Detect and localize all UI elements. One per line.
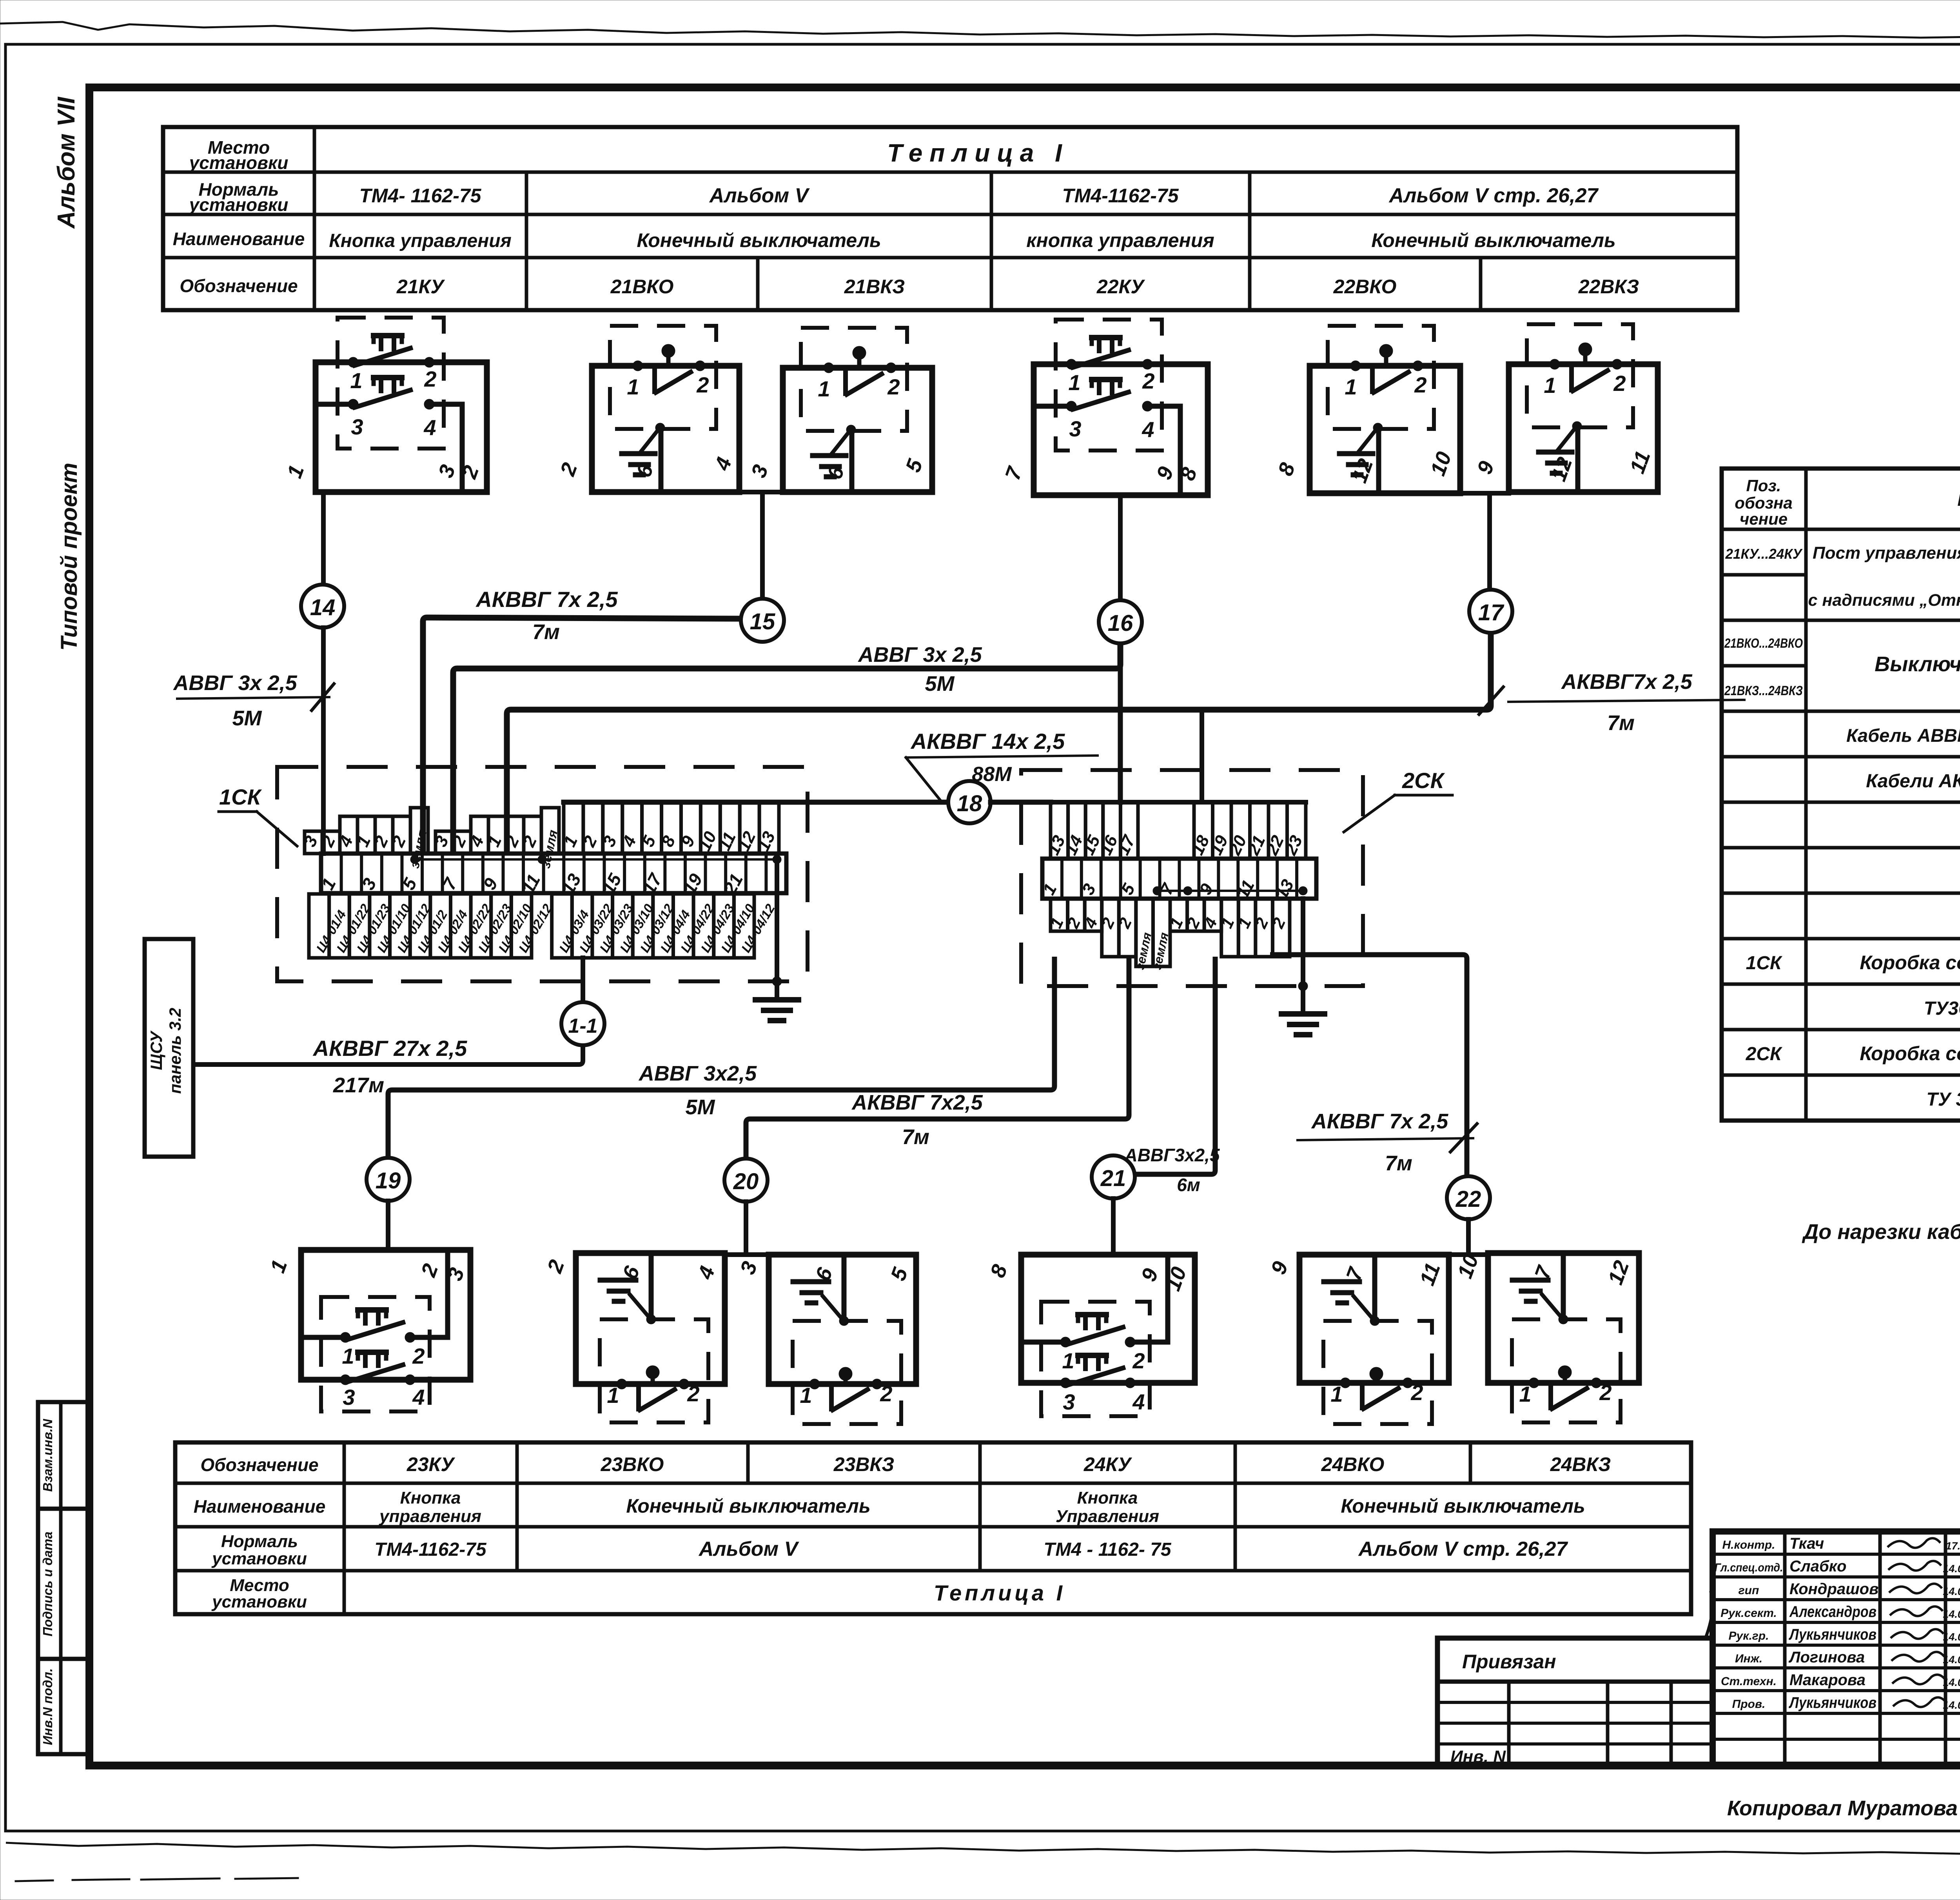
svg-text:2: 2 — [887, 374, 900, 399]
svg-text:1: 1 — [627, 374, 639, 399]
svg-text:Управления: Управления — [1056, 1507, 1159, 1526]
svg-text:Ткач: Ткач — [1789, 1535, 1824, 1552]
junction box 1SK dashed outline — [277, 767, 808, 981]
push-button station 24KU — [986, 1255, 1195, 1416]
svg-text:Поз.: Поз. — [1746, 476, 1781, 495]
node 18 — [948, 781, 991, 823]
limit switch 24VKO — [1267, 1255, 1449, 1424]
parts list table — [1722, 469, 1960, 1121]
cable label AVVG 3x2,5 5M (left) — [177, 697, 329, 699]
top specification table — [163, 127, 1737, 310]
limit switch 22VKO — [1274, 326, 1460, 493]
push-button station 21KU — [283, 318, 487, 492]
wire node 14 down to 1SK — [321, 628, 326, 854]
svg-text:24ВКО: 24ВКО — [1321, 1453, 1385, 1475]
svg-text:1-1: 1-1 — [568, 1015, 597, 1037]
svg-text:Наименование: Наименование — [1957, 486, 1960, 510]
svg-text:Наименование: Наименование — [173, 229, 305, 249]
svg-text:обозна: обозна — [1735, 494, 1792, 512]
svg-text:панель 3.2: панель 3.2 — [166, 1008, 184, 1093]
svg-text:Пост управления кнопочный ПКЕ-: Пост управления кнопочный ПКЕ-222-2,толк… — [1813, 543, 1960, 563]
wire 22VKO/22VKZ to node 17 — [1460, 491, 1509, 496]
wire 1SK to node 18 — [564, 800, 779, 805]
svg-text:Конечный выключатель: Конечный выключатель — [1341, 1495, 1585, 1517]
svg-text:14.01.86г: 14.01.86г — [1943, 1563, 1960, 1575]
junction box 2SK dashed outline — [1021, 770, 1363, 986]
1SK ground — [775, 859, 779, 998]
svg-text:Альбом V: Альбом V — [698, 1538, 800, 1560]
svg-text:Коробка соединительная КСК-1: Коробка соединительная КСК-16 — [1860, 1043, 1960, 1064]
svg-text:21ВКО...24ВКО: 21ВКО...24ВКО — [1724, 636, 1803, 651]
svg-text:Копировал Муратова: Копировал Муратова — [1727, 1796, 1958, 1820]
1SK upper terminal cells group B — [431, 808, 560, 870]
node 16 — [1099, 600, 1142, 643]
svg-text:3: 3 — [1069, 416, 1081, 441]
limit switch 23VKO — [543, 1253, 725, 1422]
cable AVVG 3x2,5 node 16 to 1SK — [453, 643, 1120, 854]
svg-text:1: 1 — [350, 368, 362, 393]
svg-text:Привязан: Привязан — [1462, 1651, 1556, 1673]
svg-text:АКВВГ 7х 2,5: АКВВГ 7х 2,5 — [1311, 1110, 1448, 1133]
svg-text:Пров.: Пров. — [1732, 1698, 1766, 1711]
wire node 20 to 23VKO/23VKZ — [744, 1202, 748, 1255]
node 20 — [724, 1159, 768, 1202]
svg-text:установки: установки — [189, 153, 289, 173]
torn paper edge top — [0, 22, 1960, 39]
2SK earth bus — [1157, 890, 1303, 892]
torn paper edge bottom — [6, 1843, 1960, 1856]
cable label AKVVG 7x2,5 7m (to 22) — [1298, 1138, 1473, 1140]
svg-text:Инж.: Инж. — [1735, 1652, 1762, 1665]
svg-text:22ВКЗ: 22ВКЗ — [1578, 276, 1639, 298]
node 1-1 — [581, 958, 585, 1002]
svg-text:2: 2 — [1613, 371, 1626, 396]
svg-text:3: 3 — [1063, 1390, 1075, 1414]
svg-text:ЩСУ: ЩСУ — [147, 1030, 165, 1070]
svg-text:Альбом V стр. 26,27: Альбом V стр. 26,27 — [1388, 184, 1599, 207]
paper scraps bottom-left — [16, 1880, 53, 1881]
svg-text:управления: управления — [379, 1507, 481, 1526]
svg-text:1: 1 — [800, 1383, 812, 1408]
bottom specification table — [175, 1442, 1691, 1614]
svg-text:Наименование: Наименование — [194, 1496, 326, 1517]
svg-text:7м: 7м — [902, 1125, 929, 1149]
svg-text:22ВКО: 22ВКО — [1333, 276, 1397, 298]
svg-text:Лукьянчиков: Лукьянчиков — [1788, 1626, 1877, 1643]
svg-text:2: 2 — [1132, 1348, 1145, 1373]
svg-text:Коробка соединительная КСК-32: Коробка соединительная КСК-32 — [1860, 952, 1960, 974]
svg-text:21ВКО: 21ВКО — [610, 276, 674, 298]
svg-text:До нарезки кабелей длины тр: До нарезки кабелей длины трасс уточнить … — [1802, 1220, 1960, 1244]
svg-text:гип: гип — [1739, 1584, 1759, 1597]
wire 2SK to node 21 — [1136, 957, 1215, 1174]
svg-text:217м: 217м — [333, 1074, 384, 1097]
svg-text:24КУ: 24КУ — [1083, 1453, 1132, 1475]
wire node 19 to 23KU — [386, 1201, 390, 1250]
svg-text:кнопка управления: кнопка управления — [1026, 229, 1214, 251]
limit switch 22VKZ — [1473, 324, 1658, 492]
svg-text:1: 1 — [1544, 373, 1556, 398]
svg-text:Альбом V: Альбом V — [709, 184, 810, 207]
svg-text:Конечный выключатель: Конечный выключатель — [1371, 229, 1615, 251]
svg-text:7м: 7м — [1607, 711, 1635, 735]
svg-text:Альбом VII: Альбом VII — [53, 96, 80, 229]
svg-text:Ст.техн.: Ст.техн. — [1721, 1675, 1777, 1688]
svg-text:Рук.сект.: Рук.сект. — [1720, 1607, 1777, 1620]
svg-text:23ВКО: 23ВКО — [601, 1453, 664, 1475]
svg-text:19: 19 — [376, 1168, 401, 1193]
svg-text:2: 2 — [696, 372, 709, 397]
1SK upper terminal cells group C — [560, 802, 779, 854]
svg-text:2: 2 — [1599, 1380, 1612, 1405]
svg-text:Кабели АКВВГ ГОСТ 1508-78: Кабели АКВВГ ГОСТ 1508-78 — [1866, 771, 1960, 792]
ShchSU panel 3.2 box — [145, 939, 193, 1157]
1SK earth bus — [415, 858, 777, 861]
svg-text:Альбом V стр. 26,27: Альбом V стр. 26,27 — [1358, 1538, 1568, 1560]
svg-text:20: 20 — [733, 1169, 759, 1194]
svg-text:1: 1 — [607, 1383, 619, 1408]
svg-text:6м: 6м — [1177, 1175, 1200, 1195]
cable AKVVG 7x2,5 from node 15 to 1SK — [423, 618, 741, 854]
svg-text:5М: 5М — [925, 672, 955, 696]
svg-text:17.01.86: 17.01.86 — [1945, 1540, 1960, 1552]
svg-text:чение: чение — [1740, 510, 1788, 528]
svg-text:ТУ36.1753-75: ТУ36.1753-75 — [1924, 998, 1960, 1019]
push-button station 22KU — [1001, 320, 1208, 495]
wire 21KU to node 14 — [321, 492, 326, 585]
svg-text:1: 1 — [342, 1344, 354, 1368]
svg-text:АКВВГ 7х2,5: АКВВГ 7х2,5 — [851, 1091, 983, 1114]
wire 2SK to node 19 — [388, 957, 1054, 1158]
svg-text:3: 3 — [343, 1385, 355, 1410]
svg-text:Н.контр.: Н.контр. — [1722, 1539, 1775, 1551]
svg-text:7м: 7м — [1385, 1152, 1412, 1175]
svg-text:22: 22 — [1455, 1186, 1481, 1212]
svg-text:Инв. N: Инв. N — [1450, 1747, 1506, 1766]
svg-text:Александров: Александров — [1789, 1603, 1877, 1620]
limit switch 24VKZ — [1453, 1251, 1639, 1422]
svg-text:АКВВГ 14х 2,5: АКВВГ 14х 2,5 — [910, 729, 1065, 754]
svg-text:установки: установки — [189, 194, 289, 215]
wire node 16 branch down to 2SK — [1118, 668, 1123, 802]
svg-text:7м: 7м — [532, 620, 560, 644]
privyazan box — [1437, 1638, 1713, 1766]
svg-text:24ВКЗ: 24ВКЗ — [1550, 1453, 1611, 1475]
svg-text:18: 18 — [957, 791, 982, 816]
svg-text:1: 1 — [1345, 374, 1357, 399]
wire 22KU to node 16 — [1118, 495, 1123, 600]
svg-text:1: 1 — [1068, 370, 1080, 395]
svg-text:2СК: 2СК — [1746, 1044, 1783, 1064]
svg-text:1: 1 — [1062, 1348, 1074, 1373]
svg-text:1СК: 1СК — [219, 785, 262, 809]
svg-text:Кнопка: Кнопка — [400, 1488, 461, 1508]
2SK lower terminal cells — [1046, 899, 1290, 971]
svg-text:установки: установки — [211, 1549, 307, 1568]
svg-text:Логинова: Логинова — [1788, 1649, 1865, 1666]
svg-text:Обозначение: Обозначение — [200, 1455, 318, 1475]
svg-text:Кондрашов: Кондрашов — [1789, 1580, 1878, 1598]
wire 2SK to node 20 — [746, 957, 1129, 1159]
node 21 — [1092, 1155, 1135, 1199]
svg-text:Кнопка: Кнопка — [1077, 1488, 1138, 1508]
cable AKVVG 27x2,5 to ShchSU — [193, 1045, 583, 1064]
svg-text:2: 2 — [1414, 372, 1426, 397]
svg-text:Лукьянчиков: Лукьянчиков — [1788, 1694, 1877, 1711]
svg-text:4: 4 — [423, 415, 436, 440]
2SK terminal strip — [1039, 859, 1316, 902]
cable label AKVVG 14x2,5 88M — [906, 756, 1098, 757]
svg-text:2: 2 — [1410, 1380, 1423, 1405]
svg-text:ТМ4 - 1162- 75: ТМ4 - 1162- 75 — [1044, 1539, 1171, 1560]
svg-text:АКВВГ7х 2,5: АКВВГ7х 2,5 — [1561, 670, 1692, 694]
leader slash — [1705, 1591, 1713, 1639]
svg-text:1: 1 — [1330, 1382, 1343, 1406]
svg-text:21КУ...24КУ: 21КУ...24КУ — [1725, 546, 1803, 562]
svg-text:Теплица I: Теплица I — [934, 1580, 1065, 1605]
svg-text:Взам.инв.N: Взам.инв.N — [40, 1419, 55, 1492]
svg-text:Рук.гр.: Рук.гр. — [1729, 1629, 1769, 1642]
svg-text:21ВКЗ...24ВКЗ: 21ВКЗ...24ВКЗ — [1724, 683, 1803, 698]
svg-text:2СК: 2СК — [1402, 768, 1445, 793]
svg-text:Теплица I: Теплица I — [887, 139, 1069, 167]
svg-text:АВВГ 3х 2,5: АВВГ 3х 2,5 — [857, 643, 982, 667]
push-button station 23KU — [266, 1250, 470, 1411]
svg-text:с надписями „Открыть“,„Закрыть: с надписями „Открыть“,„Закрыть“, ТУ16.52… — [1808, 591, 1960, 610]
svg-text:Конечный выключатель: Конечный выключатель — [626, 1495, 870, 1517]
svg-text:ТУ 36. 1753-75: ТУ 36. 1753-75 — [1926, 1089, 1960, 1110]
svg-text:3: 3 — [351, 414, 363, 439]
svg-text:Выключатель конечный: Выключатель конечный — [1875, 652, 1960, 676]
margin stamp boxes — [38, 1402, 88, 1754]
svg-text:14.01.86г: 14.01.86г — [1943, 1586, 1960, 1597]
svg-text:ТМ4-1162-75: ТМ4-1162-75 — [374, 1539, 486, 1560]
1SK lower cable-tag cells — [309, 894, 778, 958]
svg-text:Обозначение: Обозначение — [180, 276, 298, 296]
svg-text:Макарова: Макарова — [1789, 1671, 1866, 1689]
svg-text:установки: установки — [211, 1592, 307, 1611]
svg-text:5М: 5М — [685, 1095, 715, 1119]
svg-text:Слабко: Слабко — [1789, 1558, 1847, 1575]
svg-text:22КУ: 22КУ — [1096, 276, 1145, 298]
svg-text:2: 2 — [687, 1381, 699, 1406]
svg-text:14.01.86г: 14.01.86г — [1943, 1608, 1960, 1620]
node 22 — [1447, 1176, 1490, 1219]
svg-text:1: 1 — [818, 376, 830, 401]
svg-text:2: 2 — [412, 1344, 425, 1368]
1SK upper terminal cells group A — [300, 808, 429, 870]
title block — [1713, 1531, 1960, 1765]
svg-text:АВВГ3х2,5: АВВГ3х2,5 — [1124, 1145, 1220, 1165]
node 14 — [301, 585, 344, 628]
svg-text:Кабель АВВГ 3х2,5-0,66 ГОСТ: Кабель АВВГ 3х2,5-0,66 ГОСТ 16442-80 — [1846, 725, 1960, 746]
svg-text:2: 2 — [880, 1381, 892, 1406]
wire node 21 to 24KU — [1111, 1199, 1116, 1255]
2SK ground — [1301, 899, 1305, 1012]
node 19 — [367, 1158, 410, 1201]
svg-text:Типовой проект: Типовой проект — [56, 463, 82, 651]
svg-text:14: 14 — [310, 595, 336, 620]
svg-text:4: 4 — [1132, 1390, 1145, 1414]
svg-text:21КУ: 21КУ — [396, 276, 445, 298]
svg-text:2: 2 — [424, 367, 436, 391]
svg-text:Конечный выключатель: Конечный выключатель — [637, 229, 881, 251]
svg-text:Гл.спец.отд.: Гл.спец.отд. — [1715, 1561, 1783, 1574]
svg-text:Нормаль: Нормаль — [221, 1532, 298, 1551]
svg-text:ТМ4-1162-75: ТМ4-1162-75 — [1062, 185, 1179, 207]
svg-text:Инв.N подл.: Инв.N подл. — [40, 1668, 55, 1745]
svg-text:АКВВГ 7х 2,5: АКВВГ 7х 2,5 — [475, 587, 618, 612]
svg-text:АКВВГ 27х 2,5: АКВВГ 27х 2,5 — [312, 1036, 467, 1061]
svg-text:1: 1 — [1519, 1382, 1531, 1406]
svg-text:5М: 5М — [232, 707, 262, 730]
svg-text:АВВГ 3х 2,5: АВВГ 3х 2,5 — [172, 671, 297, 695]
svg-text:21ВКЗ: 21ВКЗ — [844, 276, 905, 298]
svg-text:Кнопка управления: Кнопка управления — [329, 231, 512, 251]
svg-text:АВВГ 3х2,5: АВВГ 3х2,5 — [638, 1062, 757, 1085]
svg-text:15: 15 — [750, 609, 775, 634]
limit switch 23VKZ — [736, 1255, 916, 1424]
svg-text:1СК: 1СК — [1746, 953, 1783, 974]
cable label AKVVG 7x2,5 7m (right) — [1508, 700, 1744, 702]
2SK upper terminal cells — [1044, 802, 1306, 859]
limit switch 21VKZ — [747, 328, 932, 492]
svg-text:16: 16 — [1108, 610, 1133, 636]
svg-text:4: 4 — [1142, 417, 1154, 442]
svg-text:23ВКЗ: 23ВКЗ — [833, 1453, 895, 1475]
limit switch 21VKO — [555, 326, 739, 492]
wire 21VKO/21VKZ to node 15 — [739, 490, 783, 494]
cable node 17 down, across to 1SK with branch to 2SK — [507, 633, 1491, 854]
svg-text:4: 4 — [412, 1385, 425, 1410]
wire node 22 to 24VKO/24VKZ — [1466, 1219, 1471, 1255]
svg-text:23КУ: 23КУ — [407, 1453, 456, 1475]
1SK terminal strip — [317, 854, 786, 898]
node 17 — [1469, 590, 1512, 633]
svg-text:2: 2 — [1142, 369, 1154, 393]
svg-text:88М: 88М — [972, 763, 1012, 786]
svg-text:17: 17 — [1478, 600, 1504, 625]
svg-text:ТМ4- 1162-75: ТМ4- 1162-75 — [359, 185, 482, 207]
wire node 18 to 2SK — [991, 800, 1051, 805]
svg-text:21: 21 — [1100, 1166, 1126, 1191]
svg-text:14.01.86г: 14.01.86г — [1943, 1654, 1960, 1666]
wire 2SK to node 22 — [1270, 955, 1467, 1176]
svg-text:Подпись и дата: Подпись и дата — [40, 1531, 55, 1637]
node 15 — [741, 599, 784, 642]
svg-text:14.01.86г: 14.01.86г — [1943, 1631, 1960, 1643]
